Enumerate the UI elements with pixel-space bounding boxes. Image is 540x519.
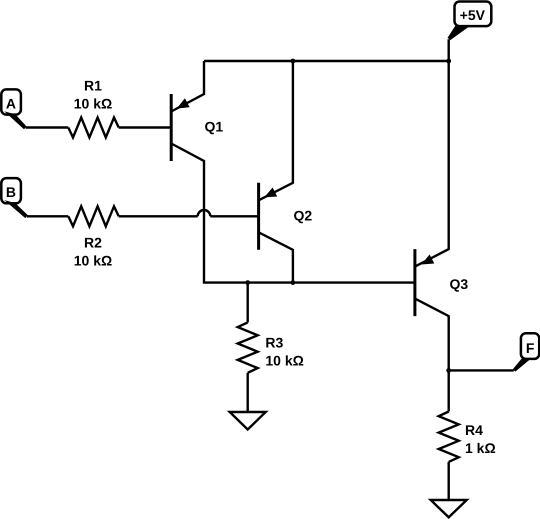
svg-text:10 kΩ: 10 kΩ <box>74 253 112 269</box>
svg-text:F: F <box>526 340 535 356</box>
svg-text:B: B <box>6 184 16 200</box>
svg-text:Q3: Q3 <box>450 276 469 292</box>
svg-text:R1: R1 <box>84 78 102 94</box>
svg-text:+5V: +5V <box>460 7 486 23</box>
svg-text:10 kΩ: 10 kΩ <box>265 353 303 369</box>
svg-text:R4: R4 <box>465 422 483 438</box>
svg-text:1 kΩ: 1 kΩ <box>465 440 496 456</box>
svg-text:Q1: Q1 <box>205 119 224 135</box>
svg-text:R2: R2 <box>84 235 102 251</box>
svg-text:Q2: Q2 <box>294 208 313 224</box>
svg-text:R3: R3 <box>265 335 283 351</box>
svg-text:10 kΩ: 10 kΩ <box>74 96 112 112</box>
svg-text:A: A <box>6 96 16 112</box>
